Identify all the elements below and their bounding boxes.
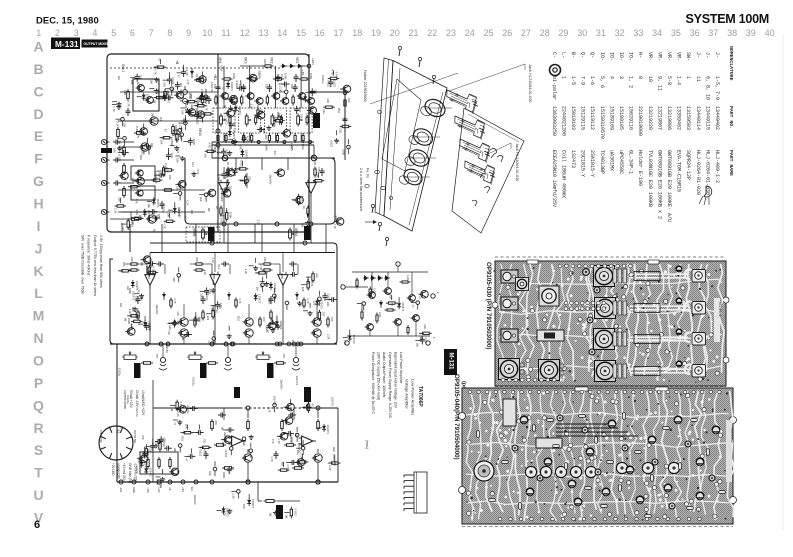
wire stub	[419, 332, 424, 334]
svg-text:11: 11	[695, 76, 701, 82]
svg-text:VR10: VR10	[198, 128, 202, 136]
svg-text:+B1: +B1	[213, 74, 217, 80]
svg-text:10u: 10u	[315, 273, 319, 278]
resistor Rmixa1	[194, 263, 205, 265]
node sprinkle	[204, 193, 208, 197]
wire stub	[137, 96, 142, 98]
svg-text:10K: 10K	[122, 123, 126, 128]
wire stub	[279, 91, 284, 93]
TA transistor Tc	[407, 295, 416, 302]
svg-text:OUTPUT MIXER: OUTPUT MIXER	[84, 42, 110, 46]
svg-text:Fe, Ni: Fe, Ni	[366, 168, 370, 178]
diode sprinkle	[315, 299, 319, 307]
ground sprinkle	[160, 477, 165, 482]
svg-text:R22: R22	[264, 135, 268, 140]
svg-text:0.022: 0.022	[240, 160, 244, 167]
resistor Rp1b	[317, 419, 320, 431]
wire qm2	[316, 304, 318, 318]
svg-text:1S2473: 1S2473	[326, 425, 330, 435]
wire stub	[240, 180, 245, 182]
pcb resistor	[651, 475, 654, 482]
transistor Q5	[146, 215, 156, 223]
capacitor sprinkle	[188, 138, 193, 146]
ruler letters	[33, 39, 45, 526]
svg-text:33K: 33K	[233, 122, 237, 127]
transistor sprinkle	[225, 109, 235, 117]
node sprinkle	[278, 116, 282, 120]
pcb resistor	[489, 499, 496, 502]
pcb pot big 5	[499, 359, 520, 380]
wire stub	[130, 77, 135, 79]
resistor sprinkle	[127, 218, 129, 230]
wire stub	[216, 509, 221, 511]
svg-text:2: 2	[55, 28, 60, 38]
svg-text:4.7K: 4.7K	[245, 136, 249, 142]
svg-text:220: 220	[138, 215, 142, 220]
pcb silk lines	[556, 423, 608, 425]
svg-text:0.022: 0.022	[171, 77, 175, 84]
svg-text:1-4: 1-4	[676, 76, 682, 85]
wire stub	[180, 107, 185, 109]
svg-text:1S2473: 1S2473	[307, 95, 311, 105]
wire lower left	[121, 211, 147, 213]
resistor sprinkle	[307, 279, 309, 291]
svg-text:TC4013BP: TC4013BP	[599, 150, 605, 174]
svg-text:22: 22	[427, 28, 437, 38]
iso jack ring 2	[411, 126, 436, 149]
wire stub	[118, 152, 123, 154]
svg-text:10K: 10K	[300, 114, 304, 119]
mid module vertical links	[149, 253, 151, 273]
TA transistor Tb	[383, 288, 392, 295]
wire stub	[194, 114, 199, 116]
svg-text:47K: 47K	[155, 353, 159, 358]
svg-text:2.2K: 2.2K	[328, 465, 332, 471]
resistor Rg3	[266, 95, 268, 106]
pcb transistor	[626, 466, 634, 474]
node mid bus	[166, 342, 170, 346]
svg-text:10K: 10K	[131, 307, 135, 312]
svg-text:10K: 10K	[150, 79, 154, 84]
svg-text:10K: 10K	[190, 210, 194, 215]
svg-text:31: 31	[596, 28, 606, 38]
wire stub	[212, 306, 214, 311]
transistor sprinkle	[222, 436, 232, 444]
page scan edge	[782, 35, 784, 530]
wire stub	[229, 108, 234, 110]
resistor x345 a	[344, 98, 346, 109]
svg-text:GWT0891GB E20 100KE- A/U: GWT0891GB E20 100KE- A/U	[666, 150, 672, 222]
resistor sprinkle	[307, 402, 309, 414]
svg-text:47K: 47K	[282, 354, 286, 359]
transistor sprinkle	[295, 459, 305, 467]
wire stub	[180, 432, 185, 434]
svg-text:VR-: VR-	[676, 52, 682, 61]
svg-text:29: 29	[558, 28, 568, 38]
blacktag RIGHT OUTPUT	[267, 363, 274, 378]
pcb right jack 3	[685, 333, 692, 343]
pcb transistor	[636, 496, 644, 504]
wire stub	[190, 115, 195, 117]
node bottom bus	[119, 480, 123, 484]
wire stub	[228, 326, 230, 331]
iso lug c	[480, 169, 485, 178]
pcb divider dashed	[495, 386, 726, 388]
pot out 1	[187, 351, 203, 360]
svg-text:0.022: 0.022	[293, 509, 297, 516]
svg-text:2.2K: 2.2K	[256, 220, 260, 226]
transistor Qm2b	[311, 329, 321, 337]
wire stub	[326, 299, 331, 301]
resistor Rp0a	[211, 419, 214, 431]
resistor R13	[134, 132, 146, 135]
pcb jack 3	[501, 329, 518, 342]
resistor sprinkle	[323, 106, 335, 108]
transistor sprinkle	[197, 76, 207, 84]
diode sprinkle	[173, 206, 177, 214]
svg-text:13449115: 13449115	[704, 106, 710, 130]
wire stub	[277, 435, 282, 437]
wire strip drop 0	[223, 133, 225, 142]
resistor sprinkle	[256, 272, 268, 274]
svg-text:J-: J-	[695, 52, 701, 58]
pcb resistor	[502, 461, 509, 464]
wire stub	[144, 316, 146, 321]
node sprinkle	[237, 490, 241, 494]
iso lug b	[497, 156, 503, 163]
svg-text:VR9A: VR9A	[294, 228, 298, 237]
svg-text:13219220: 13219220	[647, 106, 653, 130]
+B cap a	[276, 74, 281, 82]
iso leader line jack 030	[486, 143, 511, 155]
wire stub	[184, 455, 189, 457]
capacitor sprinkle	[181, 69, 186, 77]
connector pin	[100, 447, 106, 449]
blacktag phones level	[304, 387, 311, 402]
svg-text:HLJ-0264-01-020: HLJ-0264-01-020	[695, 150, 701, 195]
resistor sprinkle	[226, 210, 228, 222]
iso screw 1	[418, 57, 421, 67]
wire stub	[118, 137, 123, 139]
wire stub	[178, 267, 180, 272]
svg-text:R22: R22	[289, 413, 293, 418]
svg-text:47: 47	[207, 341, 211, 344]
wire stub	[230, 117, 232, 122]
transistor sprinkle	[225, 169, 235, 177]
svg-text:CN10 NC: CN10 NC	[99, 430, 103, 444]
svg-text:10K: 10K	[326, 98, 330, 103]
wire stub	[226, 185, 228, 190]
pcb resistor	[607, 461, 614, 464]
pcb transistor	[608, 420, 616, 428]
svg-text:Voltage Amplifier: Voltage Amplifier	[405, 379, 410, 409]
svg-text:33K: 33K	[117, 197, 121, 202]
wire stub	[266, 274, 268, 279]
op-amp IO5	[278, 272, 288, 289]
capacitor C13	[207, 96, 212, 104]
svg-text:47K: 47K	[203, 448, 207, 453]
svg-text:10u/16V: 10u/16V	[269, 174, 273, 184]
svg-text:2SC1815-Y: 2SC1815-Y	[580, 150, 586, 177]
iso screw 0	[398, 46, 401, 56]
iso lug a	[490, 149, 497, 159]
resistor Rfbk0	[170, 298, 172, 309]
capacitor C22	[113, 158, 121, 163]
wire stub	[196, 108, 198, 113]
resistor R31	[162, 169, 174, 172]
pot VR9B dashed box	[186, 227, 220, 242]
svg-text:Q: Q	[33, 397, 44, 413]
ground sprinkle	[253, 266, 258, 271]
resistor sprinkle	[195, 105, 207, 107]
node sprinkle	[213, 467, 217, 471]
wire stub	[136, 313, 138, 318]
svg-text:M-131: M-131	[55, 40, 79, 49]
svg-text:3: 3	[618, 76, 624, 79]
svg-text:A: A	[33, 39, 43, 55]
channel strip VR1 wire	[300, 66, 302, 108]
resistor sprinkle	[340, 125, 352, 127]
bi-polar cap icon	[550, 65, 561, 76]
svg-text:R22: R22	[237, 316, 241, 321]
ground sprinkle	[177, 420, 182, 425]
wire stub	[173, 419, 178, 421]
transistor Qm1b	[243, 329, 253, 337]
capacitor Cin1	[216, 84, 221, 92]
iso leader line jack 020	[449, 64, 525, 91]
resistor Rmixa2	[262, 263, 273, 265]
+B wire	[240, 65, 264, 67]
svg-text:PART NAME: PART NAME	[728, 150, 734, 176]
svg-text:220: 220	[203, 438, 207, 443]
svg-text:12: 12	[240, 28, 250, 38]
node op2	[309, 222, 313, 226]
capacitor Cfb1	[233, 168, 238, 176]
wire phones stub	[277, 500, 300, 502]
wire rail y243	[150, 243, 337, 344]
wire stub	[230, 105, 232, 110]
svg-text:10K: 10K	[199, 197, 203, 202]
wire main vertical bus	[217, 54, 219, 232]
svg-text:100K: 100K	[309, 73, 313, 79]
svg-text:47K: 47K	[135, 469, 139, 474]
svg-text:5, 6: 5, 6	[599, 76, 605, 88]
ground sprinkle	[185, 108, 190, 113]
resistor sprinkle	[115, 205, 127, 207]
resistor sprinkle	[128, 186, 140, 188]
TA wire risers	[371, 272, 373, 291]
wire stub	[176, 138, 178, 143]
wire stub	[201, 71, 203, 76]
IC IC1 box	[133, 79, 159, 111]
svg-text:10K: 10K	[168, 175, 172, 180]
diode sprinkle	[131, 280, 135, 288]
wire out drop 0	[149, 285, 151, 344]
svg-text:Q-: Q-	[580, 52, 586, 58]
ground sprinkle	[275, 324, 280, 329]
resistor Rfbk2	[303, 298, 305, 309]
resistor Rmixa0	[129, 263, 140, 265]
wire stub	[141, 145, 146, 147]
diode sprinkle	[163, 93, 167, 101]
resistor sprinkle	[176, 131, 178, 143]
wire stub	[185, 112, 190, 114]
resistor sprinkle	[131, 320, 143, 322]
svg-text:15189109: 15189109	[608, 106, 614, 130]
svg-text:2.2K: 2.2K	[157, 89, 161, 95]
wire stub	[168, 323, 173, 325]
transistor Q2	[139, 143, 149, 151]
resistor strip mini 3	[306, 115, 308, 126]
svg-text:1: 1	[560, 76, 566, 79]
svg-text:R: R	[33, 420, 43, 436]
svg-text:13159503: 13159503	[685, 106, 691, 130]
capacitor sprinkle	[150, 443, 155, 451]
resistor sprinkle	[119, 270, 131, 272]
svg-text:2.2K: 2.2K	[300, 453, 304, 459]
svg-text:100K: 100K	[229, 212, 233, 219]
pcb jack 2	[501, 297, 518, 310]
svg-text:10K: 10K	[294, 433, 298, 438]
ground sprinkle	[249, 435, 254, 440]
svg-text:J: J	[35, 240, 43, 256]
svg-text:10K: 10K	[347, 98, 351, 103]
wire stub	[171, 81, 173, 86]
pot VR2 body	[271, 114, 277, 127]
svg-text:bi-polar: bi-polar	[551, 76, 557, 100]
pcb resistor	[687, 507, 694, 510]
resistor Rmixb0	[129, 269, 140, 271]
svg-text:Coil 180uH 400mX: Coil 180uH 400mX	[560, 150, 566, 198]
blacktag MONO OUTPUT	[200, 363, 207, 378]
node rail 243 b	[303, 241, 307, 245]
wire stub	[138, 323, 143, 325]
node sprinkle	[249, 449, 253, 453]
iso screw 3	[371, 204, 374, 213]
svg-text:4.7K: 4.7K	[130, 323, 134, 329]
svg-text:1S2473: 1S2473	[289, 433, 293, 443]
svg-text:10u/16V: 10u/16V	[178, 208, 182, 218]
wire stub	[143, 451, 145, 456]
wire drop op to rail b	[310, 224, 312, 243]
svg-text:32: 32	[615, 28, 625, 38]
wire stub	[228, 138, 233, 140]
svg-text:47: 47	[310, 403, 314, 407]
capacitor sprinkle	[241, 135, 246, 143]
iso front panel	[384, 61, 447, 232]
node sprinkle	[295, 433, 299, 437]
wire stub	[296, 447, 301, 449]
svg-text:C14: C14	[291, 340, 295, 345]
resistor Rm2f	[270, 310, 272, 321]
pcb right row 1	[613, 269, 617, 283]
svg-text:10K: 10K	[168, 325, 172, 330]
svg-text:C14: C14	[191, 162, 195, 167]
svg-text:1S2473: 1S2473	[146, 94, 150, 104]
wire mid left border	[110, 259, 114, 344]
channel strip VR3 wire	[249, 66, 251, 108]
node sprinkle	[180, 133, 184, 137]
resistor Rout2	[307, 206, 309, 217]
svg-text:34: 34	[652, 28, 662, 38]
capacitor sprinkle	[149, 209, 157, 214]
svg-text:L: L	[34, 285, 43, 301]
FET ch1 a	[220, 93, 229, 100]
svg-text:15: 15	[296, 28, 306, 38]
wire stub	[153, 66, 158, 68]
transistor sprinkle	[135, 177, 145, 185]
svg-text:10K: 10K	[173, 447, 177, 452]
svg-text:2.2K: 2.2K	[249, 104, 253, 110]
wire stub	[176, 129, 178, 134]
node sprinkle	[212, 337, 216, 341]
capacitor sprinkle	[290, 272, 298, 277]
wire stub	[229, 125, 231, 130]
svg-text:Equivalent Input Noise Voltage: Equivalent Input Noise Voltage: 2uV	[393, 352, 397, 409]
diode Dm1	[227, 292, 231, 300]
wire stub	[186, 425, 188, 430]
wire left drop x153	[152, 380, 154, 408]
resistor Rm1e	[259, 317, 261, 328]
wire stub	[184, 115, 186, 120]
wire strip drop 2	[274, 133, 276, 142]
pcb pot big 3	[594, 329, 615, 350]
svg-text:1: 1	[36, 28, 41, 38]
pcb transistor	[664, 484, 672, 492]
svg-text:47K: 47K	[167, 330, 171, 335]
wire +B rail	[212, 157, 335, 159]
channel strip VR2 wire	[274, 66, 276, 108]
svg-text:10u: 10u	[224, 175, 228, 180]
ground sprinkle	[270, 328, 275, 333]
svg-text:1S2473: 1S2473	[135, 407, 139, 417]
capacitor sprinkle	[157, 173, 165, 178]
pcb resistor	[477, 431, 480, 438]
iso countersunk arrow	[365, 221, 373, 223]
wire stub	[195, 312, 197, 317]
wire stub	[336, 130, 338, 135]
node sprinkle	[261, 283, 265, 287]
node sprinkle	[178, 192, 182, 196]
svg-text:10K: 10K	[196, 100, 200, 105]
ground sprinkle	[266, 126, 271, 131]
pcb resistor	[691, 419, 698, 422]
wire stub	[283, 432, 288, 434]
svg-text:15029110: 15029110	[628, 106, 634, 130]
svg-text:2.2K: 2.2K	[113, 208, 117, 214]
pot VR2 dashed box	[264, 108, 286, 133]
capacitor C12	[181, 119, 189, 124]
svg-text:HLJ-0264-01-030: HLJ-0264-01-030	[704, 150, 710, 195]
pot VR4 dashed box	[213, 108, 235, 133]
svg-text:GND blak (31): GND blak (31)	[128, 463, 132, 483]
svg-text:4.7K: 4.7K	[208, 288, 212, 294]
node bottom bus	[132, 480, 136, 484]
below box cluster 0	[217, 133, 219, 143]
wire stub	[184, 101, 189, 103]
svg-text:40: 40	[765, 28, 775, 38]
svg-text:17: 17	[333, 28, 343, 38]
svg-text:47: 47	[266, 330, 270, 333]
resistor R14	[172, 124, 175, 136]
wire rail y408	[153, 407, 240, 409]
svg-text:0.022u: 0.022u	[191, 377, 195, 386]
resistor Rfb1	[227, 167, 229, 178]
pcb resistor	[565, 463, 568, 470]
iso panel step cutout	[382, 79, 421, 171]
wire stub	[305, 91, 310, 93]
svg-text:30: 30	[577, 28, 587, 38]
